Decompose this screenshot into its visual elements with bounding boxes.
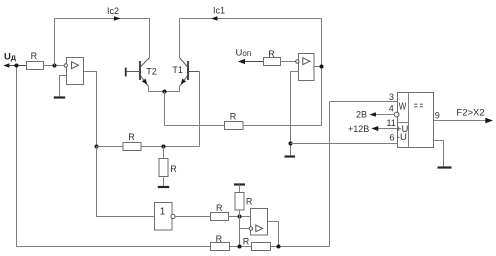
node Uд input terminal [4,52,27,68]
equality symbol inside U5 [414,104,423,107]
resistor R8 bottom rail [211,234,230,251]
ground at pin6 node [285,155,296,157]
wire bottom rail up to pin 3 [329,102,331,247]
wire U1 output right and down to node D [84,72,97,147]
wire to U4 inverting input [240,228,250,230]
node 2В arrow into pin 4 [356,109,394,119]
resistor R4 feedback [123,132,141,151]
wire T1 collector up to Ic1 rail [179,19,181,58]
wire T2 emitter to common node [149,86,165,91]
wire pin 6 of U5 [291,143,398,145]
wire left vertical from Uд node down to bottom rail [16,66,18,247]
svg-text:1: 1 [160,206,166,217]
transistor T2 base terminal tick [125,68,127,77]
ground under R5 [158,186,169,188]
wire T1 base down to feedback line [199,72,201,147]
svg-text:R: R [128,132,135,142]
svg-text:R: R [230,112,237,122]
wire U5 to ground [434,141,444,167]
wire emitter node down to emitter resistor line [164,92,166,126]
svg-text:F2>X2: F2>X2 [456,107,484,118]
resistor R3 reference [264,49,296,66]
resistor R5 vertical [159,147,177,177]
junction dot node B [238,245,242,249]
wire U4 output down to node C [268,222,279,247]
junction dot common emitters [163,90,167,94]
power bar above R7 [234,183,245,185]
svg-text:Uоп: Uоп [236,48,252,59]
node +12В arrow into pin 11 [348,124,398,134]
wire up from junction to Ic2 rail [54,19,56,66]
junction dot U2 output [320,65,324,69]
svg-text:Ic2: Ic2 [107,6,119,16]
svg-text:3: 3 [389,92,394,102]
wire T2 collector up to Ic2 rail [149,19,151,58]
resistor R7 vertical pull-up [235,185,253,217]
wire Ic1 vertical down [321,19,323,126]
op-amp U2 comparator [296,54,314,81]
transistor T2 [127,58,157,87]
junction dot at Uд node [15,64,19,68]
wire node D down and right to inverter input [97,147,155,217]
wire Ic1 rail [180,18,322,20]
svg-text:R: R [243,237,250,247]
svg-text:9: 9 [435,111,440,121]
junction dot node C [277,245,281,249]
svg-text:R: R [170,164,177,174]
svg-text:T2: T2 [146,66,157,76]
svg-text:+12В: +12В [348,124,369,134]
output F2>X2 from pin 9 [434,107,494,123]
resistor R9 bottom rail [243,237,271,251]
resistor R1 input [27,51,64,70]
wire U2 output to Ic1 vertical [314,66,322,68]
current arrow Ic1 [211,5,225,20]
svg-text:R: R [216,203,223,213]
wire R5 to ground [163,177,165,187]
svg-text:Uд: Uд [4,52,16,63]
svg-text:R: R [216,234,223,244]
junction dot pin6 node [289,142,293,146]
op-amp U1 comparator [64,58,83,85]
junction dot node A [238,215,242,219]
svg-text:R: R [246,196,253,206]
wire Ic2 rail [55,18,150,20]
node Uоп reference terminal [236,48,264,65]
svg-text:4: 4 [389,103,394,113]
comparator U5 body [396,93,434,148]
wire U2 minus terminal down to pin6 node [291,72,299,156]
svg-text:W: W [399,102,407,113]
svg-text:T1: T1 [172,65,183,75]
pin 4 inverting input circle [394,112,399,117]
wire emitter line [165,125,322,127]
svg-text:2В: 2В [356,109,367,119]
junction dot amp1 input node [53,64,57,68]
svg-text:Ic1: Ic1 [213,5,225,15]
svg-text:6: 6 [390,132,395,142]
wire T1 emitter to common node [165,86,180,91]
svg-text:-U: -U [397,132,407,143]
ground under U1 [54,96,65,98]
resistor R2 on emitter line [225,112,244,130]
transistor T1 [172,58,199,87]
wire U3 output to U4 input [175,216,250,218]
op-amp U4 comparator [249,209,267,236]
wire feedback line node D to T1 base drop [97,146,200,148]
junction dot node E [162,145,166,149]
svg-text:R: R [31,51,38,61]
ground under U5 [438,166,452,168]
inverter U3 [155,203,176,231]
resistor R6 [211,203,229,221]
svg-text:R: R [268,49,275,59]
wire node A down to bottom rail node B [239,217,241,247]
junction dot node D [95,145,99,149]
svg-text:11: 11 [387,118,396,128]
current arrow Ic2 [107,6,121,21]
wire pin 3 of U5 [330,101,398,103]
wire bottom rail [17,246,330,248]
wire U1 minus terminal to ground [60,76,67,97]
